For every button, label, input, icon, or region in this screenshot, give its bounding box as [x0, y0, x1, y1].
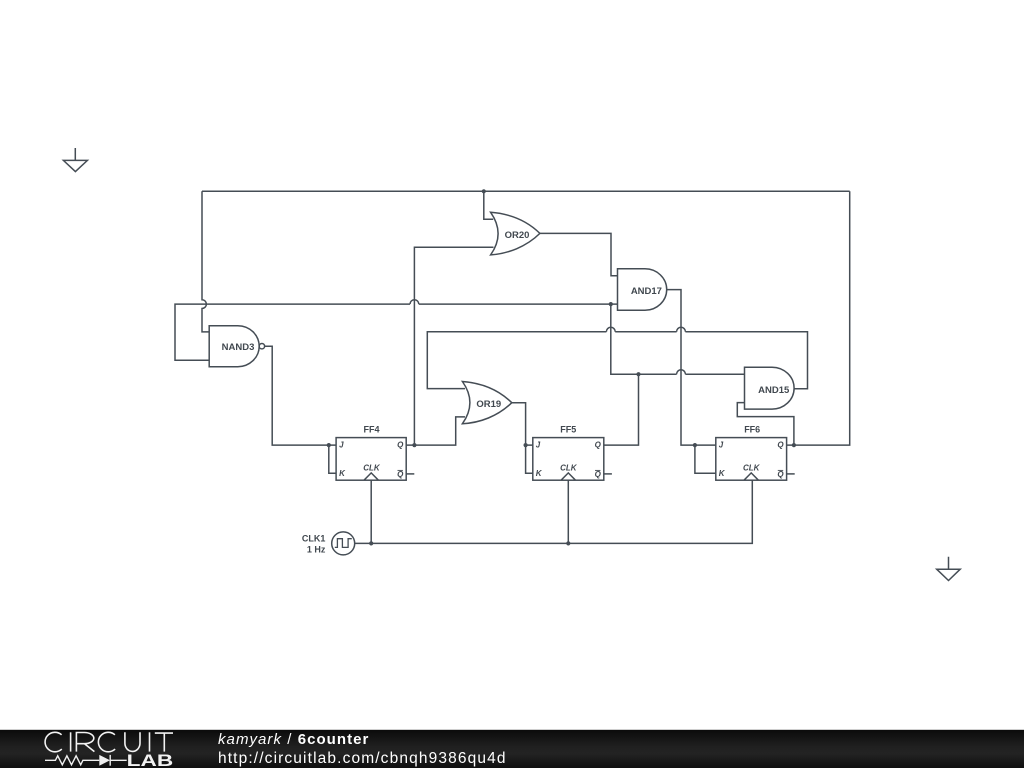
svg-text:LAB: LAB [127, 751, 174, 768]
flip-flop FF5 box [533, 438, 604, 481]
wire top net from NAND3 input loop to FF6 Q (node top) [202, 190, 850, 192]
logo diode triangle [99, 755, 110, 766]
wire hop on OR19 feed over AND17 output vertical [677, 327, 686, 331]
wire FF5 CLK to clock line [567, 480, 569, 543]
wire FF6 Q to right vertical up to top net [787, 191, 850, 445]
node junction dot FF4 J [327, 443, 331, 447]
wire NAND3 lower-input feed left loop [175, 304, 618, 360]
wire FF6 J-K tie [695, 445, 716, 473]
pin labels FF5 [536, 441, 602, 479]
wire FF5 Q-bar stub [604, 473, 612, 475]
op-amp OR20 body [491, 212, 540, 255]
pin labels FF4 [339, 441, 404, 479]
wire AND17 lower input node down to AND15 upper input with hop [611, 304, 745, 374]
node junction dot FF4 Q [412, 443, 416, 447]
wire OR19 output to FF5 J [511, 403, 532, 445]
op-amp NAND3 body [209, 326, 259, 367]
svg-text:FF6: FF6 [744, 424, 760, 434]
svg-text:CLK: CLK [363, 464, 381, 473]
wire AND15 output loop back to OR19 upper input with two hops [427, 332, 807, 389]
wire FF4 Q to OR19 lower input [414, 417, 465, 445]
svg-text:FF5: FF5 [560, 424, 576, 434]
svg-text:1 Hz: 1 Hz [307, 545, 326, 555]
footer bar [0, 730, 1024, 768]
FF6 clock edge triangle [744, 473, 758, 480]
svg-text:AND17: AND17 [631, 286, 662, 297]
op-amp AND15 body [745, 367, 795, 409]
flip-flop FF4 box [336, 438, 406, 481]
node junction dot AND17 lower input [609, 302, 613, 306]
wire OR20 upper input from top net [484, 191, 493, 219]
svg-text:Q: Q [595, 441, 602, 450]
wire hop on OR19 feed over AND17 lower-input vertical [606, 327, 615, 331]
svg-text:J: J [536, 441, 541, 450]
wire FF4 CLK to clock line [370, 480, 372, 543]
svg-text:CLK1: CLK1 [302, 534, 326, 544]
svg-text:http://circuitlab.com/cbnqh938: http://circuitlab.com/cbnqh9386qu4d [218, 750, 507, 767]
svg-text:K: K [536, 469, 543, 478]
svg-text:NAND3: NAND3 [222, 342, 255, 353]
svg-text:K: K [719, 469, 726, 478]
wire FF4 Q-bar stub [406, 473, 414, 475]
node junction dot FF6 J [693, 443, 697, 447]
wire clock line CLK1 to FF6 CLK [355, 480, 753, 543]
node junction dot FF5 CLK [566, 541, 570, 545]
node junction dot FF4 CLK [369, 541, 373, 545]
logo resistor-diode symbol [45, 755, 127, 766]
svg-text:FF4: FF4 [363, 424, 379, 434]
node junction dot top net / OR20 input [482, 189, 486, 193]
flip-flop FF6 box [716, 438, 787, 481]
ground GND2 bottom-right [937, 557, 961, 581]
wire NAND3 output to FF4 J/K [265, 346, 336, 445]
svg-text:Q: Q [595, 470, 602, 479]
wire hop on AND15-input wire over AND17 output vertical [677, 370, 686, 374]
node junction dot FF6 Q [792, 443, 796, 447]
node junction dot AND15 upper input / FF5 Q [636, 372, 640, 376]
svg-text:Q: Q [397, 441, 404, 450]
svg-text:Q: Q [777, 470, 784, 479]
wire FF5 Q up to AND15 feed node [604, 374, 639, 445]
wire hop on AND17-input wire over FF4-Q vertical [410, 300, 419, 304]
svg-text:K: K [339, 469, 346, 478]
wire left vertical with hop over AND17-input wire [202, 191, 209, 332]
node junction dot FF5 J [524, 443, 528, 447]
wire FF5 J-K tie [526, 445, 533, 473]
svg-text:kamyark / 6counter: kamyark / 6counter [218, 731, 369, 748]
FF4 clock edge triangle [364, 473, 378, 480]
op-amp OR19 body [462, 382, 511, 424]
svg-text:CLK: CLK [743, 464, 761, 473]
clock source CLK1 circle [332, 532, 355, 555]
svg-text:Q: Q [397, 470, 404, 479]
wire AND15 lower input loop to FF6 Q [737, 403, 794, 446]
NAND3 output bubble [259, 344, 264, 349]
svg-text:AND15: AND15 [758, 385, 790, 396]
FF5 clock edge triangle [561, 473, 575, 480]
logo CIRCUIT stroked letters [45, 732, 173, 752]
wire FF4 J-K tie [329, 445, 336, 473]
ground GND1 top-left [63, 148, 87, 172]
svg-text:J: J [719, 441, 724, 450]
pin labels FF6 [719, 441, 785, 479]
wire OR20 output to AND17 upper input [540, 233, 618, 275]
svg-text:OR19: OR19 [476, 399, 501, 410]
svg-text:CLK: CLK [560, 464, 578, 473]
wire FF4 Q up to OR20 lower input [406, 247, 493, 445]
wire AND17 output down to FF6 J [667, 290, 716, 446]
wire FF6 Q-bar stub [787, 473, 795, 475]
CLK1 square-wave glyph [335, 539, 352, 548]
op-amp AND17 body [618, 269, 667, 311]
svg-text:Q: Q [777, 441, 784, 450]
pin label Q-bar overlines [398, 469, 784, 471]
svg-text:J: J [339, 441, 344, 450]
svg-text:OR20: OR20 [505, 230, 530, 241]
